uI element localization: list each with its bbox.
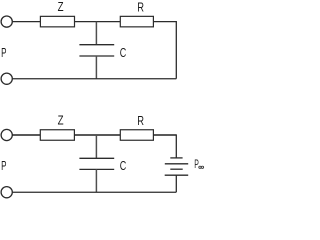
- svg-text:R: R: [137, 1, 144, 15]
- wire right rail (circuit 1): [175, 21, 177, 79]
- label P (port symbol, circuit 2): [1, 159, 6, 173]
- label C (circuit 1): [120, 46, 127, 60]
- label R (circuit 2): [137, 115, 144, 129]
- terminal circle (top-left input, circuit 2): [1, 129, 12, 140]
- wire bottom rail (circuit 2): [12, 191, 176, 193]
- wire top rail left segment (circuit 2): [12, 134, 40, 136]
- wire top rail middle segment (circuit 2): [74, 134, 120, 136]
- svg-text:C: C: [120, 160, 127, 174]
- terminal circle (bottom-left input, circuit 1): [1, 73, 12, 84]
- svg-text:Z: Z: [58, 115, 64, 128]
- wire bottom rail (circuit 1): [12, 78, 176, 80]
- wire top rail middle segment (circuit 1): [75, 21, 121, 23]
- svg-text:P: P: [194, 158, 199, 171]
- terminal circle (top-left input, circuit 1): [1, 16, 12, 27]
- wire top rail right segment (circuit 1): [153, 21, 176, 23]
- label R (circuit 1): [137, 1, 144, 15]
- wire capacitor bottom stub (circuit 2): [95, 169, 97, 192]
- terminal circle (bottom-left input, circuit 2): [1, 187, 12, 198]
- wire below battery (circuit 2): [175, 175, 177, 192]
- impedance Z box (circuit 1): [40, 16, 74, 27]
- svg-text:R: R: [137, 115, 144, 129]
- resistor R box (circuit 1): [120, 16, 153, 27]
- label P-infinity: [194, 158, 199, 171]
- svg-text:P: P: [1, 46, 6, 60]
- label Z (circuit 2): [58, 115, 64, 128]
- svg-text:Z: Z: [58, 1, 64, 14]
- wire capacitor top stub (circuit 1): [95, 22, 97, 45]
- resistor R box (circuit 2): [120, 130, 153, 141]
- wire right branch down to battery (circuit 2): [175, 134, 177, 158]
- label P (port symbol, circuit 1): [1, 46, 6, 60]
- wire capacitor bottom stub (circuit 1): [95, 56, 97, 79]
- svg-text:P: P: [1, 159, 6, 173]
- svg-text:C: C: [120, 46, 127, 60]
- label C (circuit 2): [120, 160, 127, 174]
- wire top rail left segment (circuit 1): [12, 21, 40, 23]
- capacitor C plates (circuit 1): [79, 45, 114, 56]
- wire capacitor top stub (circuit 2): [95, 135, 97, 158]
- label infinity subscript of P-infinity: [199, 166, 204, 168]
- label Z (circuit 1): [58, 1, 64, 14]
- impedance Z box (circuit 2): [40, 130, 74, 141]
- capacitor C plates (circuit 2): [79, 158, 114, 169]
- wire top rail right segment (circuit 2): [153, 134, 176, 136]
- battery element P-infinity plates: [165, 158, 189, 175]
